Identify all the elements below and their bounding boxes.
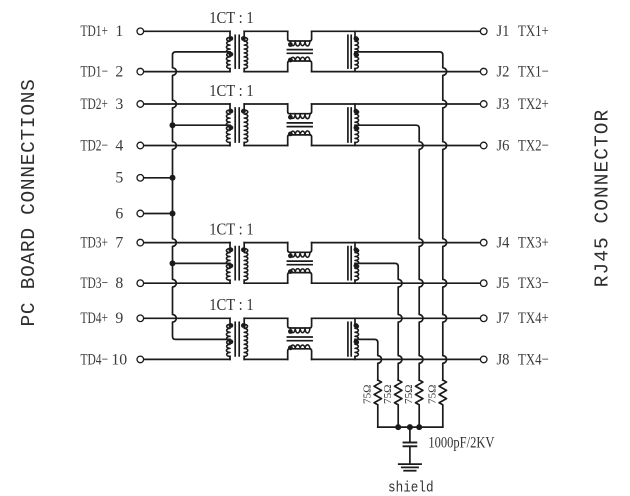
pin 2 terminal circle xyxy=(137,68,144,75)
autotransformer A1 center dot xyxy=(354,52,359,57)
autotransformer A4 bottom lead xyxy=(354,356,356,359)
wire choke L4 to J pin (bottom row) xyxy=(312,358,480,360)
wire transformer T3 primary center tap xyxy=(173,262,231,264)
choke L1 bottom winding xyxy=(288,61,312,72)
choke L1 bottom phase dot xyxy=(288,58,293,63)
transformer T3 primary top phase dot xyxy=(229,247,234,252)
transformer T3 secondary bottom lead xyxy=(243,280,245,283)
autotransformer A3 top phase dot xyxy=(354,247,359,252)
junction bus/resistor ch3 xyxy=(395,424,401,430)
choke L4 bottom winding xyxy=(288,349,312,360)
capacitor C1 bottom lead xyxy=(409,446,411,463)
pin 1 terminal circle xyxy=(137,28,144,35)
svg-text:J6: J6 xyxy=(497,136,510,154)
wire choke L2 to J pin (top row) xyxy=(312,103,480,105)
svg-text:TX1−: TX1− xyxy=(518,63,549,81)
transformer T4 secondary top lead xyxy=(243,318,245,324)
pin J2 terminal circle xyxy=(480,68,487,75)
pin 3 terminal circle xyxy=(137,101,144,108)
pin 10 terminal circle xyxy=(137,356,144,363)
wire A2 center tap and drop to resistor R2 xyxy=(355,125,423,380)
pin J8 terminal circle xyxy=(480,356,487,363)
transformer T3 secondary top lead xyxy=(243,243,245,249)
svg-text:TD3−: TD3− xyxy=(81,274,109,292)
wire choke L3 to J pin (top row) xyxy=(312,242,480,244)
svg-text:TX2+: TX2+ xyxy=(518,95,549,113)
resistor 75ohm (channel 2) xyxy=(416,380,423,427)
autotransformer A4 core xyxy=(347,322,349,356)
transformer T4 secondary winding xyxy=(244,324,248,356)
choke L4 top winding xyxy=(288,318,312,328)
svg-text:J2: J2 xyxy=(497,63,510,81)
transformer T3 secondary top phase dot xyxy=(241,247,246,252)
svg-text:J5: J5 xyxy=(497,274,510,292)
transformer T1 primary center-tap dot xyxy=(229,52,234,57)
svg-text:TD4+: TD4+ xyxy=(81,309,109,327)
wire from pin 10 row xyxy=(144,358,230,360)
svg-text:J8: J8 xyxy=(497,350,510,368)
wire T4 secondary bottom to choke L4 xyxy=(244,358,288,360)
svg-text:10: 10 xyxy=(111,351,127,368)
transformer T1 secondary top lead xyxy=(243,31,245,37)
transformer T3 primary bottom lead xyxy=(229,280,231,283)
junction bus/resistor ch2 xyxy=(416,424,422,430)
transformer T2 secondary top phase dot xyxy=(241,109,246,114)
capacitor C1 1000pF/2KV top lead xyxy=(409,427,411,442)
transformer T4 core xyxy=(234,322,236,356)
transformer T1 primary top phase dot xyxy=(229,36,234,41)
wire from pin 2 row xyxy=(144,71,230,73)
choke L2 top phase dot xyxy=(288,115,293,120)
pin 9 terminal circle xyxy=(137,315,144,322)
svg-text:9: 9 xyxy=(115,310,123,327)
wire T3 secondary bottom to choke L3 xyxy=(244,282,288,284)
svg-text:TD1−: TD1− xyxy=(81,63,109,81)
transformer T1 secondary top phase dot xyxy=(241,36,246,41)
wire from pin 7 row xyxy=(144,242,230,244)
ground (shield) symbol xyxy=(399,463,421,465)
autotransformer A2 core xyxy=(347,108,349,142)
wire choke L3 to J pin (bottom row) xyxy=(312,282,480,284)
wire choke L2 to J pin (bottom row) xyxy=(312,145,480,147)
transformer T1 secondary bottom lead xyxy=(243,69,245,72)
svg-text:RJ45 CONNECTOR: RJ45 CONNECTOR xyxy=(591,109,613,288)
wire from pin 6 row xyxy=(144,213,173,215)
svg-text:TX3−: TX3− xyxy=(518,274,549,292)
choke L3 core xyxy=(287,260,312,262)
autotransformer A2 winding xyxy=(355,110,359,143)
autotransformer A1 top lead xyxy=(354,31,356,37)
transformer T1 primary top lead xyxy=(229,31,231,37)
autotransformer A2 bottom lead xyxy=(354,143,356,146)
transformer T1 core xyxy=(234,35,236,68)
svg-text:TD2+: TD2+ xyxy=(81,95,109,113)
wire T1 secondary top to choke L1 xyxy=(244,30,288,32)
wire T1 secondary bottom to choke L1 xyxy=(244,71,288,73)
svg-text:75Ω: 75Ω xyxy=(362,385,374,405)
autotransformer A2 center dot xyxy=(354,125,359,130)
wire from pin 3 row xyxy=(144,103,230,105)
svg-text:6: 6 xyxy=(115,205,123,222)
svg-text:1CT : 1: 1CT : 1 xyxy=(209,295,254,314)
svg-text:3: 3 xyxy=(115,96,123,113)
svg-text:TD2−: TD2− xyxy=(81,136,109,154)
wire T2 secondary bottom to choke L2 xyxy=(244,145,288,147)
autotransformer A4 top phase dot xyxy=(354,323,359,328)
wire choke L1 to J pin (top row) xyxy=(312,30,480,32)
svg-text:75Ω: 75Ω xyxy=(427,385,439,405)
svg-text:TX2−: TX2− xyxy=(518,136,549,154)
transformer T2 primary top phase dot xyxy=(229,109,234,114)
wire from pin 5 row xyxy=(144,177,173,179)
pin 7 terminal circle xyxy=(137,239,144,246)
transformer T2 primary center-tap dot xyxy=(229,125,234,130)
svg-text:TD1+: TD1+ xyxy=(81,22,109,40)
svg-text:4: 4 xyxy=(115,137,123,154)
svg-text:1CT : 1: 1CT : 1 xyxy=(209,8,254,27)
svg-text:7: 7 xyxy=(115,235,123,252)
autotransformer A1 core xyxy=(347,35,349,68)
junction bus/capacitor xyxy=(407,424,413,430)
svg-text:1CT : 1: 1CT : 1 xyxy=(209,219,254,238)
autotransformer A3 center dot xyxy=(354,263,359,268)
autotransformer A4 winding xyxy=(355,324,359,356)
transformer T2 secondary bottom lead xyxy=(243,143,245,146)
pin 8 terminal circle xyxy=(137,280,144,287)
choke L1 top winding xyxy=(288,31,312,41)
svg-text:1: 1 xyxy=(115,23,123,40)
choke L2 bottom winding xyxy=(288,135,312,146)
choke L2 core xyxy=(287,122,312,124)
choke L4 top phase dot xyxy=(288,329,293,334)
capacitor C1 plates xyxy=(404,442,417,444)
pin J7 terminal circle xyxy=(480,315,487,322)
wire A3 center tap and drop to resistor R3 xyxy=(355,263,402,380)
svg-text:shield: shield xyxy=(388,480,434,496)
transformer T2 primary winding xyxy=(226,110,230,143)
svg-text:TX4+: TX4+ xyxy=(518,309,549,327)
center-tap common rail (vertical) xyxy=(173,52,231,340)
wire T2 secondary top to choke L2 xyxy=(244,103,288,105)
transformer T2 primary bottom lead xyxy=(229,143,231,146)
resistor 75ohm (channel 1) xyxy=(439,380,446,427)
svg-text:75Ω: 75Ω xyxy=(382,385,394,405)
svg-text:1000pF/2KV: 1000pF/2KV xyxy=(428,434,494,451)
transformer T1 primary winding xyxy=(226,37,230,68)
svg-text:PC BOARD CONNECTIONS: PC BOARD CONNECTIONS xyxy=(18,78,40,326)
wire T4 secondary top to choke L4 xyxy=(244,317,288,319)
choke L4 bottom phase dot xyxy=(288,345,293,350)
transformer T3 core xyxy=(234,247,236,280)
pin J5 terminal circle xyxy=(480,280,487,287)
choke L4 core xyxy=(287,336,312,338)
autotransformer A1 bottom lead xyxy=(354,69,356,72)
junction rail/pin 5 xyxy=(170,175,176,181)
svg-text:8: 8 xyxy=(115,275,123,292)
svg-text:J3: J3 xyxy=(497,95,510,113)
transformer T4 primary bottom lead xyxy=(229,356,231,359)
autotransformer A2 top phase dot xyxy=(354,109,359,114)
choke L3 top phase dot xyxy=(288,253,293,258)
transformer T2 primary top lead xyxy=(229,104,231,110)
transformer T4 secondary top phase dot xyxy=(241,323,246,328)
transformer T4 primary top phase dot xyxy=(229,323,234,328)
choke L3 bottom phase dot xyxy=(288,269,293,274)
wire termination bus xyxy=(378,426,443,428)
junction rail/T2 center tap xyxy=(170,122,176,128)
wire choke L4 to J pin (top row) xyxy=(312,317,480,319)
autotransformer A1 winding xyxy=(355,37,359,68)
autotransformer A3 bottom lead xyxy=(354,280,356,283)
autotransformer A3 top lead xyxy=(354,243,356,249)
autotransformer A3 winding xyxy=(355,249,359,281)
wire A4 center tap and drop to resistor R4 xyxy=(355,339,382,380)
svg-text:TD3+: TD3+ xyxy=(81,234,109,252)
svg-text:TX1+: TX1+ xyxy=(518,22,549,40)
choke L2 top winding xyxy=(288,104,312,114)
transformer T4 secondary bottom lead xyxy=(243,356,245,359)
transformer T1 secondary winding xyxy=(244,37,248,68)
autotransformer A4 center dot xyxy=(354,339,359,344)
wire T3 secondary top to choke L3 xyxy=(244,242,288,244)
wire A1 center tap and drop to resistor R1 xyxy=(355,52,447,380)
svg-text:J4: J4 xyxy=(497,234,510,252)
choke L2 bottom phase dot xyxy=(288,132,293,137)
transformer T1 primary bottom lead xyxy=(229,69,231,72)
wire from pin 9 row xyxy=(144,317,230,319)
resistor 75ohm (channel 3) xyxy=(395,380,402,427)
junction rail/T3 center tap xyxy=(170,260,176,266)
wire from pin 1 row xyxy=(144,30,230,32)
choke L3 top winding xyxy=(288,243,312,253)
autotransformer A2 top lead xyxy=(354,104,356,110)
pin 4 terminal circle xyxy=(137,142,144,149)
junction rail/pin 6 xyxy=(170,211,176,217)
pin J1 terminal circle xyxy=(480,28,487,35)
transformer T2 core xyxy=(234,108,236,142)
pin J4 terminal circle xyxy=(480,239,487,246)
transformer T4 primary top lead xyxy=(229,318,231,324)
svg-text:5: 5 xyxy=(115,170,123,187)
autotransformer A1 top phase dot xyxy=(354,36,359,41)
svg-text:2: 2 xyxy=(115,64,123,81)
choke L1 top phase dot xyxy=(288,42,293,47)
transformer T3 primary top lead xyxy=(229,243,231,249)
transformer T3 primary center-tap dot xyxy=(229,263,234,268)
transformer T2 secondary winding xyxy=(244,110,248,143)
wire choke L1 to J pin (bottom row) xyxy=(312,71,480,73)
transformer T3 primary winding xyxy=(226,249,230,281)
svg-text:TD4−: TD4− xyxy=(81,350,109,368)
svg-text:J7: J7 xyxy=(497,309,510,327)
transformer T3 secondary winding xyxy=(244,249,248,281)
wire transformer T2 primary center tap xyxy=(173,124,231,126)
svg-text:J1: J1 xyxy=(497,22,510,40)
svg-text:TX4−: TX4− xyxy=(518,350,549,368)
choke L3 bottom winding xyxy=(288,273,312,284)
autotransformer A4 top lead xyxy=(354,318,356,324)
transformer T2 secondary top lead xyxy=(243,104,245,110)
transformer T4 primary winding xyxy=(226,324,230,356)
wire from pin 8 row xyxy=(144,282,230,284)
pin 6 terminal circle xyxy=(137,210,144,217)
resistor 75ohm (channel 4) xyxy=(374,380,381,427)
pin J6 terminal circle xyxy=(480,142,487,149)
svg-text:TX3+: TX3+ xyxy=(518,234,549,252)
pin J3 terminal circle xyxy=(480,101,487,108)
pin 5 terminal circle xyxy=(137,175,144,182)
autotransformer A3 core xyxy=(347,247,349,280)
choke L1 core xyxy=(287,49,312,51)
svg-text:1CT : 1: 1CT : 1 xyxy=(209,81,254,100)
svg-text:75Ω: 75Ω xyxy=(403,385,415,405)
transformer T4 primary center-tap dot xyxy=(229,339,234,344)
wire from pin 4 row xyxy=(144,145,230,147)
